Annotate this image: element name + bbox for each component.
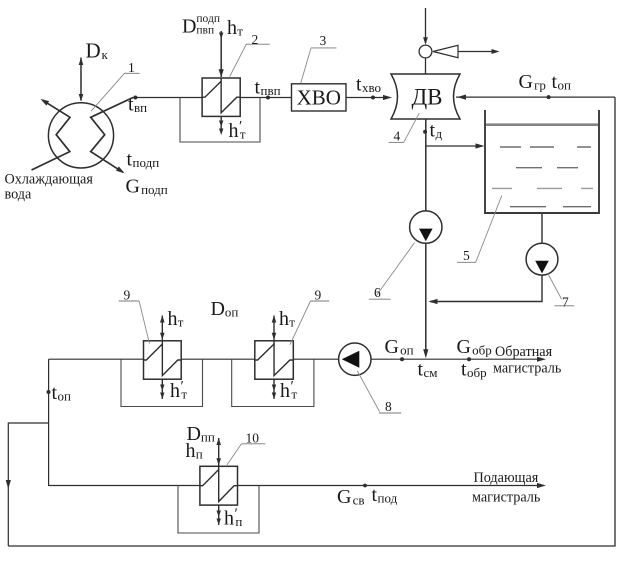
svg-text:обр: обр xyxy=(472,343,492,358)
arrow downcomer into mixing point xyxy=(423,349,428,358)
svg-text:т: т xyxy=(289,315,295,330)
label t_vp xyxy=(128,94,147,116)
svg-text:т: т xyxy=(181,387,187,402)
arrowhead at heater 2 top xyxy=(219,69,224,77)
svg-text:D: D xyxy=(211,298,225,320)
svg-text:4: 4 xyxy=(394,129,401,144)
node G_gr xyxy=(547,95,551,99)
label t_pvp xyxy=(255,77,281,99)
label t_op right xyxy=(552,71,572,93)
label D_op xyxy=(211,298,239,320)
svg-text:оп: оп xyxy=(225,305,239,320)
label h_t heater 2 xyxy=(227,17,243,39)
label t_pod xyxy=(372,484,398,506)
svg-text:пвп: пвп xyxy=(261,83,281,98)
label h_t' heater 2 xyxy=(229,119,246,143)
condensate arrow h_t' heater 9a xyxy=(161,379,163,399)
condenser 1 xyxy=(32,98,134,173)
label G_sv xyxy=(337,486,365,508)
svg-text:h: h xyxy=(168,308,178,330)
wire: heater 10 bypass loop xyxy=(178,486,259,534)
down arrowhead h_t heater 9b xyxy=(272,333,277,340)
leader 1 to condenser xyxy=(91,73,140,111)
svg-text:h: h xyxy=(227,17,237,39)
condensate head1 h_p' heater 10 xyxy=(217,511,221,518)
steam arrow h_t heater 9a xyxy=(161,316,163,341)
label h_p' 10 xyxy=(224,506,242,530)
heat exchanger 10 (peak heater) xyxy=(200,466,238,505)
label h_t 9a xyxy=(168,308,184,330)
condensate arrowhead 2 xyxy=(219,129,223,136)
svg-text:D: D xyxy=(86,39,101,63)
tank water level line xyxy=(486,123,598,126)
condensate head1 h_t' heater 9b xyxy=(272,385,276,392)
label h_t' 9b xyxy=(280,379,297,403)
svg-text:8: 8 xyxy=(385,399,392,414)
arrow cooling water out (up-left) xyxy=(41,99,50,106)
wire: G_gr return line y=97 xyxy=(456,96,615,98)
steam arrow h_t heater 9b xyxy=(273,316,275,341)
svg-text:д: д xyxy=(436,126,443,141)
arrowhead down into condenser xyxy=(79,94,84,102)
condensate head2 h_t' heater 9a xyxy=(160,393,164,400)
wire: condenser to deaerator main line y=97.5 xyxy=(133,97,388,99)
heat exchanger 2 (make-up water heater) xyxy=(202,78,240,116)
arrow into vent circle xyxy=(423,37,428,45)
wire: return main line y=359 xyxy=(49,358,541,360)
svg-text:вода: вода xyxy=(5,187,33,203)
label G_obr xyxy=(457,336,492,358)
arrow t_podp out (down-right) xyxy=(116,166,125,173)
heat exchanger 9a (district heating stage 1) xyxy=(144,341,182,379)
leader 3 to XBO xyxy=(301,48,337,83)
leader 2 to heater 2 xyxy=(230,44,270,76)
arrow into deaerator left xyxy=(383,95,392,100)
label t_podp xyxy=(127,149,160,171)
water treatment unit XBO 3 xyxy=(292,84,347,111)
node t_hvo xyxy=(371,96,375,100)
small arrowhead on steam line 2 xyxy=(219,33,223,40)
node t_op left xyxy=(47,390,51,394)
node t_d xyxy=(423,130,427,134)
leader 9b xyxy=(290,301,329,345)
down arrowhead h_p heater 10 xyxy=(216,458,221,465)
wire: heater 9b bypass loop xyxy=(232,359,314,406)
node t_vp xyxy=(133,96,137,100)
label t_hvo xyxy=(356,74,381,96)
vent arrowhead xyxy=(492,49,500,54)
deaerator DV 4 body xyxy=(391,74,460,119)
arrowhead up at D_k xyxy=(79,58,84,66)
label h_p xyxy=(186,440,203,462)
svg-text:п: п xyxy=(235,514,242,529)
wire: heater 2 bypass loop xyxy=(180,98,260,143)
svg-text:h: h xyxy=(170,380,180,402)
svg-text:подп: подп xyxy=(133,155,160,170)
node t_pvp xyxy=(266,96,270,100)
condensate head2 h_p' heater 10 xyxy=(217,519,221,526)
steam D_k arrow into condenser xyxy=(80,58,82,101)
svg-text:G: G xyxy=(385,336,399,358)
label t_obr xyxy=(461,359,487,381)
label D_k xyxy=(86,39,109,63)
svg-text:св: св xyxy=(353,493,365,508)
arrow into tank xyxy=(476,143,485,148)
arrow return main xyxy=(537,357,546,362)
label h_t' 9a xyxy=(170,379,187,403)
svg-text:9: 9 xyxy=(315,288,322,303)
steam arrow into heater 2 xyxy=(220,31,222,77)
svg-text:h: h xyxy=(186,440,196,462)
leader 5 to tank xyxy=(457,196,502,263)
svg-text:1: 1 xyxy=(128,60,135,75)
svg-text:оп: оп xyxy=(558,78,572,93)
up arrowhead h_t heater 9a xyxy=(160,316,165,323)
leader 6 to pump 6 xyxy=(369,243,415,300)
svg-text:9: 9 xyxy=(124,288,131,303)
svg-text:магистраль: магистраль xyxy=(493,361,562,377)
svg-text:6: 6 xyxy=(374,285,381,300)
label D_pp xyxy=(187,423,215,445)
tank water dashes xyxy=(492,147,593,207)
svg-text:гр: гр xyxy=(534,78,546,93)
vent horn triangle xyxy=(433,45,458,57)
svg-text:h: h xyxy=(279,308,289,330)
arrow pump7 discharge into downcomer xyxy=(429,299,438,304)
vent exhaust arrow xyxy=(458,51,495,53)
node G_sv xyxy=(363,484,367,488)
svg-text:подп: подп xyxy=(141,182,168,197)
label h_t 9b xyxy=(279,308,295,330)
condensate arrow h_p' heater 10 xyxy=(218,505,220,525)
label G_op xyxy=(385,336,414,358)
svg-text:хво: хво xyxy=(362,80,381,95)
flow arrow down on left pipe xyxy=(6,480,11,489)
svg-text:обр: обр xyxy=(467,365,487,380)
svg-text:оп: оп xyxy=(400,343,414,358)
svg-text:G: G xyxy=(519,71,533,93)
wire: supply main line y=485.5 xyxy=(49,485,541,487)
svg-text:h: h xyxy=(224,508,234,530)
svg-text:подп: подп xyxy=(196,13,220,25)
svg-text:G: G xyxy=(457,336,471,358)
label D_pvp^podp xyxy=(182,13,220,38)
svg-text:т: т xyxy=(178,315,184,330)
svg-text:под: под xyxy=(378,491,398,506)
pump 7 xyxy=(526,243,558,275)
condensate arrowhead 1 xyxy=(219,121,223,128)
wire: tank outlet down xyxy=(541,213,543,244)
pump 6 xyxy=(410,211,442,243)
tank 5 walls xyxy=(485,110,599,213)
svg-text:7: 7 xyxy=(562,295,569,310)
svg-text:магистраль: магистраль xyxy=(472,490,541,506)
svg-text:h: h xyxy=(229,120,239,142)
leader 8 to pump 8 xyxy=(357,371,401,413)
wire: pump 7 discharge xyxy=(430,275,542,302)
wire: heater 9a bypass loop xyxy=(121,359,203,406)
up arrowhead h_t heater 9b xyxy=(272,316,277,323)
svg-text:G: G xyxy=(337,486,351,508)
svg-text:h: h xyxy=(280,380,290,402)
heat exchanger 9b (district heating stage 2) xyxy=(255,341,293,379)
svg-text:пп: пп xyxy=(201,430,215,445)
node t_obr xyxy=(467,357,471,361)
label G_podp xyxy=(126,176,168,198)
svg-text:к: к xyxy=(102,47,109,62)
svg-text:пвп: пвп xyxy=(196,25,214,37)
svg-text:10: 10 xyxy=(246,431,260,446)
vent circle xyxy=(419,45,432,58)
pump 8 xyxy=(339,343,371,375)
svg-text:G: G xyxy=(126,176,140,198)
svg-text:Обратная: Обратная xyxy=(495,344,553,360)
wire: t_op vertical pipe x=48.6 xyxy=(48,359,50,486)
svg-text:т: т xyxy=(240,127,246,142)
svg-text:т: т xyxy=(237,23,243,38)
svg-text:Охлаждающая: Охлаждающая xyxy=(5,172,94,188)
wire: left down pipe xyxy=(8,423,48,546)
wire: right outer riser and bottom return line xyxy=(8,97,615,546)
condensate h_t' arrow below heater 2 xyxy=(220,116,222,133)
wire: branch to tank y=146 xyxy=(426,145,481,147)
steam arrow h_p heater 10 xyxy=(218,438,220,466)
svg-text:т: т xyxy=(291,387,297,402)
deaerator vent stack xyxy=(425,8,427,43)
svg-text:Подающая: Подающая xyxy=(474,470,539,486)
svg-text:вп: вп xyxy=(134,100,147,115)
svg-text:D: D xyxy=(182,16,196,38)
arrow into deaerator right xyxy=(457,95,466,100)
leader 10 xyxy=(227,444,265,465)
condensate head1 h_t' heater 9a xyxy=(160,385,164,392)
node G_op xyxy=(400,357,404,361)
arrow supply main xyxy=(537,483,546,488)
label t_d xyxy=(430,120,443,142)
label t_op left xyxy=(52,382,72,404)
leader 9a xyxy=(119,301,150,344)
svg-text:ДВ: ДВ xyxy=(411,85,442,110)
svg-text:3: 3 xyxy=(320,33,327,48)
label G_gr xyxy=(519,71,546,93)
down arrowhead h_t heater 9a xyxy=(160,333,165,340)
leader 7 to pump 7 xyxy=(548,273,575,306)
vent circle stem xyxy=(425,58,427,74)
svg-text:ХВО: ХВО xyxy=(297,86,341,110)
up arrowhead h_p heater 10 xyxy=(216,438,221,445)
condensate arrow h_t' heater 9b xyxy=(273,379,275,399)
wire: deaerator downcomer x=425.8 xyxy=(425,119,427,355)
label t_sm xyxy=(418,359,438,381)
svg-text:оп: оп xyxy=(58,389,72,404)
condensate head2 h_t' heater 9b xyxy=(272,393,276,400)
svg-text:п: п xyxy=(196,447,203,462)
svg-text:см: см xyxy=(424,365,438,380)
svg-text:5: 5 xyxy=(463,248,470,263)
leader 4 to deaerator xyxy=(389,113,420,142)
svg-text:2: 2 xyxy=(252,32,259,47)
